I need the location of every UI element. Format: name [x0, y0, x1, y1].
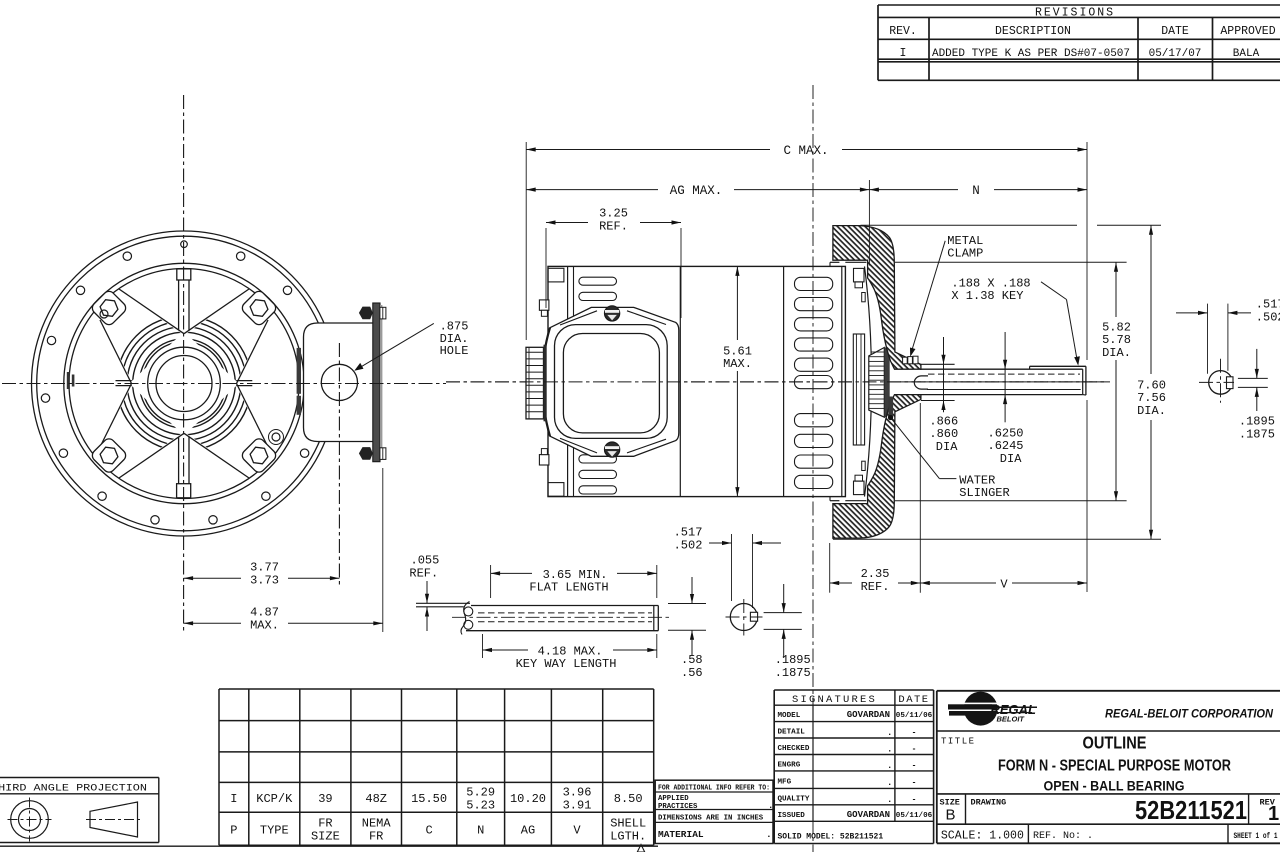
- shaft detail flat lines: [416, 603, 470, 607]
- title texts: [941, 733, 1231, 794]
- dimension 7.60/7.56 DIA: [833, 225, 1166, 539]
- dimension 4.87 MAX: [184, 468, 383, 633]
- end cap curve: [865, 266, 872, 496]
- svg-text:REVISIONS: REVISIONS: [1035, 6, 1115, 19]
- rear stub shaft with ribs: [526, 345, 547, 422]
- svg-text:MAX.: MAX.: [723, 357, 752, 371]
- front view center bore circles: [148, 347, 221, 420]
- cover left edge emphasis: [542, 328, 550, 437]
- svg-text:BALA: BALA: [1233, 48, 1260, 60]
- svg-text:OUTLINE: OUTLINE: [1083, 733, 1147, 753]
- parameter table: [219, 689, 654, 845]
- svg-text:SHEET 1 of 1: SHEET 1 of 1: [1234, 832, 1278, 841]
- svg-text:PRACTICES: PRACTICES: [658, 803, 698, 811]
- dimension 3.25 REF: [546, 207, 681, 319]
- revision flag triangle: [637, 845, 644, 852]
- svg-text:.: .: [768, 801, 773, 811]
- dimension N: [869, 184, 1087, 198]
- dimension C MAX: [526, 142, 1087, 592]
- bell housing vertical centerline: [812, 85, 814, 852]
- svg-text:3.96: 3.96: [563, 786, 592, 800]
- regal beloit logo: [948, 692, 1037, 726]
- additional info block: [655, 780, 773, 843]
- front view bottom strut: [177, 437, 191, 498]
- front view vertical centerline overlay: [183, 95, 185, 633]
- front view right strut stub: [236, 381, 252, 386]
- dimension 3.77/3.73: [184, 561, 340, 588]
- water slinger disc: [888, 397, 893, 418]
- svg-text:B: B: [946, 807, 956, 824]
- bearing hub plate: [853, 334, 864, 445]
- svg-text:FOR ADDITIONAL INFO REFER TO:: FOR ADDITIONAL INFO REFER TO:: [658, 784, 770, 792]
- cover slant inner lines: [560, 311, 666, 453]
- svg-text:C: C: [425, 823, 432, 837]
- junction box cover plate (front view): [373, 303, 383, 462]
- svg-text:-: -: [912, 796, 917, 805]
- svg-text:N: N: [477, 823, 484, 837]
- dimension 5.82/5.78 DIA: [895, 262, 1131, 501]
- cover plate bottom bolt: [359, 447, 386, 460]
- main horizontal centerline: [2, 382, 1105, 384]
- .875 dia hole: [321, 364, 357, 400]
- svg-text:DIA: DIA: [1000, 452, 1022, 466]
- size drawing rev row: [940, 795, 1280, 825]
- svg-text:REF.: REF.: [599, 219, 628, 233]
- svg-text:SOLID MODEL: 52B211521: SOLID MODEL: 52B211521: [778, 833, 884, 842]
- svg-text:5.23: 5.23: [466, 799, 495, 813]
- svg-text:SIGNATURES: SIGNATURES: [792, 694, 877, 706]
- svg-text:3.91: 3.91: [563, 799, 592, 813]
- front view left edge tick marks: [67, 372, 75, 389]
- svg-text:CLAMP: CLAMP: [947, 247, 983, 261]
- svg-text:MFG: MFG: [778, 779, 792, 787]
- ventilation slots right column: [795, 277, 833, 488]
- front view X-brace web edges: [100, 289, 268, 478]
- svg-text:ISSUED: ISSUED: [778, 812, 806, 820]
- svg-text:48Z: 48Z: [365, 792, 387, 806]
- svg-text:.: .: [887, 795, 892, 805]
- svg-text:DATE: DATE: [898, 694, 929, 706]
- bearing bracket top: [854, 268, 866, 301]
- svg-text:AG MAX.: AG MAX.: [670, 184, 723, 198]
- leader WATER SLINGER: [888, 415, 1010, 500]
- dimension .517/.502 (lower view): [674, 526, 781, 609]
- svg-text:REF.: REF.: [861, 580, 890, 594]
- sheet bottom border: [0, 845, 658, 847]
- dimension 3.65 MIN FLAT LENGTH: [491, 565, 657, 598]
- svg-text:-: -: [912, 729, 917, 738]
- svg-text:TYPE: TYPE: [260, 823, 289, 837]
- svg-text:FR: FR: [318, 817, 332, 831]
- svg-text:KEY WAY LENGTH: KEY WAY LENGTH: [516, 657, 617, 671]
- shaft end view circle (lower): [726, 599, 763, 636]
- svg-text:39: 39: [318, 792, 332, 806]
- scale row: [941, 830, 1278, 843]
- svg-text:SHELL: SHELL: [610, 817, 646, 831]
- svg-text:REGAL-BELOIT CORPORATION: REGAL-BELOIT CORPORATION: [1105, 708, 1274, 720]
- svg-text:DETAIL: DETAIL: [778, 729, 806, 737]
- svg-text:8.50: 8.50: [614, 792, 643, 806]
- svg-text:3.73: 3.73: [250, 574, 279, 588]
- svg-text:TITLE: TITLE: [941, 736, 976, 746]
- projection symbol circles: [8, 798, 52, 842]
- third angle projection box: [0, 778, 159, 843]
- bell housing upper section (hatched): [833, 226, 921, 370]
- svg-text:V: V: [573, 823, 581, 837]
- svg-text:SCALE: 1.000: SCALE: 1.000: [941, 830, 1024, 843]
- svg-text:.: .: [887, 778, 892, 788]
- svg-text:REV.: REV.: [889, 25, 917, 38]
- leader METAL CLAMP: [910, 234, 983, 357]
- junction box hole centerline: [338, 343, 340, 588]
- shaft end cap: [1083, 366, 1086, 395]
- svg-text:AG: AG: [521, 823, 535, 837]
- svg-text:P: P: [230, 823, 237, 837]
- knurled clamp hub: [869, 348, 890, 418]
- svg-text:N: N: [972, 184, 980, 198]
- svg-text:.502: .502: [674, 538, 703, 552]
- svg-text:MAX.: MAX.: [250, 619, 279, 633]
- dimension .1895/.1875 (far right): [1238, 349, 1275, 441]
- svg-text:APPROVED: APPROVED: [1220, 25, 1275, 38]
- svg-text:GOVARDAN: GOVARDAN: [847, 710, 890, 720]
- svg-text:FORM N - SPECIAL PURPOSE MOTOR: FORM N - SPECIAL PURPOSE MOTOR: [998, 758, 1231, 775]
- shaft detail body: [466, 606, 658, 631]
- svg-text:FLAT LENGTH: FLAT LENGTH: [529, 581, 608, 595]
- svg-text:MODEL: MODEL: [778, 712, 801, 720]
- svg-text:.: .: [887, 745, 892, 755]
- shaft key .188: [1030, 366, 1086, 369]
- svg-text:X 1.38 KEY: X 1.38 KEY: [951, 289, 1023, 303]
- svg-text:REF. No: .: REF. No: .: [1033, 831, 1093, 842]
- shaft detail centerline: [452, 616, 670, 618]
- svg-text:.502: .502: [1256, 310, 1280, 324]
- junction box (front view): [304, 323, 376, 442]
- front view bolt holes on bolt circle: [41, 241, 309, 524]
- cover rounded plates: [555, 325, 668, 439]
- dimension AG MAX: [526, 180, 869, 266]
- svg-text:3.77: 3.77: [250, 561, 279, 575]
- metal clamp pieces: [903, 356, 918, 364]
- svg-text:15.50: 15.50: [411, 792, 447, 806]
- svg-text:2.35: 2.35: [861, 567, 890, 581]
- dimension 5.61 MAX: [723, 266, 752, 496]
- svg-text:.56: .56: [681, 666, 703, 680]
- leader .875 dia hole: [354, 320, 468, 371]
- front view vertical centerline: [183, 95, 185, 633]
- front view top strut: [177, 269, 191, 330]
- dimension .866/.860 DIA: [929, 337, 958, 454]
- svg-text:SLINGER: SLINGER: [959, 486, 1009, 500]
- dimension .58/.56: [668, 577, 706, 680]
- bore lines .866: [921, 364, 955, 400]
- cover screw top: [605, 306, 620, 321]
- svg-text:52B211521: 52B211521: [1135, 795, 1247, 825]
- svg-text:05/17/07: 05/17/07: [1149, 48, 1202, 60]
- svg-text:APPLIED: APPLIED: [658, 795, 689, 803]
- svg-text:DIA.: DIA.: [1102, 346, 1131, 360]
- svg-text:SIZE: SIZE: [311, 830, 340, 844]
- front view motor flange outer circle: [32, 231, 337, 536]
- svg-text:.: .: [887, 728, 892, 738]
- svg-text:THIRD ANGLE PROJECTION: THIRD ANGLE PROJECTION: [0, 784, 147, 795]
- junction box hole centerline overlay: [338, 343, 340, 588]
- front view stator lamination arcs in windows: [117, 316, 252, 451]
- svg-text:10.20: 10.20: [510, 792, 546, 806]
- svg-text:.1875: .1875: [775, 666, 811, 680]
- dimension V: [920, 577, 1087, 591]
- svg-text:.: .: [887, 761, 892, 771]
- end shield step lines: [830, 262, 866, 500]
- svg-text:DRAWING: DRAWING: [971, 797, 1007, 807]
- junction box cover octagon (side view): [542, 307, 679, 456]
- svg-text:DATE: DATE: [1161, 25, 1189, 38]
- svg-text:NEMA: NEMA: [362, 817, 392, 831]
- svg-text:I: I: [900, 47, 907, 60]
- shaft relief groove: [914, 376, 928, 389]
- svg-text:.1875: .1875: [1239, 427, 1275, 441]
- front view left strut stub: [116, 381, 132, 386]
- svg-text:4.87: 4.87: [250, 605, 279, 619]
- projection symbol cone: [86, 802, 142, 837]
- svg-text:05/11/06: 05/11/06: [896, 712, 933, 720]
- ventilation slots left column: [579, 277, 617, 494]
- signatures table: [774, 690, 933, 844]
- shaft detail hidden keyway lines: [478, 613, 652, 622]
- through-bolt heads left: [539, 300, 549, 465]
- svg-text:LGTH.: LGTH.: [610, 830, 646, 844]
- svg-text:GOVARDAN: GOVARDAN: [847, 810, 890, 820]
- dimension 4.18 MAX KEY WAY LENGTH: [483, 634, 657, 671]
- dimension .517/.502 (far right): [1176, 298, 1280, 374]
- front view small plate holes: [100, 310, 284, 445]
- revisions table: [878, 5, 1280, 80]
- leader .188 X .188 X 1.38 KEY: [951, 277, 1080, 366]
- svg-text:5.29: 5.29: [466, 786, 495, 800]
- shaft end view circle (far right): [1199, 359, 1234, 403]
- bell housing lower section (hatched): [833, 395, 921, 539]
- svg-text:V: V: [1000, 577, 1008, 591]
- dimension .055 REF: [409, 554, 439, 632]
- svg-text:OPEN - BALL BEARING: OPEN - BALL BEARING: [1044, 778, 1185, 794]
- shaft detail break symbol: [461, 602, 473, 635]
- svg-text:CHECKED: CHECKED: [778, 745, 810, 753]
- svg-text:.: .: [766, 829, 772, 840]
- main horizontal centerline overlay: [2, 382, 1105, 384]
- shaft centerline: [900, 381, 1110, 383]
- svg-text:BELOIT: BELOIT: [997, 714, 1026, 723]
- svg-text:-: -: [912, 745, 917, 754]
- svg-text:REF.: REF.: [409, 566, 438, 580]
- motor body outline (side view): [548, 266, 845, 496]
- svg-text:DIMENSIONS ARE IN INCHES: DIMENSIONS ARE IN INCHES: [658, 814, 764, 822]
- svg-text:DIA.: DIA.: [1137, 404, 1166, 418]
- svg-text:I: I: [230, 792, 237, 806]
- svg-text:FR: FR: [369, 830, 383, 844]
- dimension .6250/.6245 DIA: [988, 332, 1024, 466]
- cover plate top bolt: [359, 307, 386, 320]
- dimension 2.35 REF: [830, 403, 921, 594]
- shaft: [920, 369, 1083, 394]
- dimension .1895/.1875 (lower view): [764, 584, 811, 680]
- svg-text:DESCRIPTION: DESCRIPTION: [995, 25, 1071, 38]
- svg-text:MATERIAL: MATERIAL: [658, 829, 704, 840]
- bearing bracket bottom: [854, 461, 866, 494]
- title block: [937, 691, 1280, 844]
- front view inner ring (end shield rim): [64, 263, 304, 503]
- svg-text:KCP/K: KCP/K: [256, 792, 293, 806]
- svg-text:QUALITY: QUALITY: [778, 796, 810, 804]
- svg-text:DIA: DIA: [936, 440, 958, 454]
- svg-text:HOLE: HOLE: [440, 344, 469, 358]
- junction box side wall marks: [297, 348, 301, 415]
- svg-text:C MAX.: C MAX.: [783, 144, 828, 158]
- svg-text:ENGRG: ENGRG: [778, 762, 801, 770]
- body corner step blocks: [548, 268, 564, 496]
- svg-text:ADDED TYPE K AS PER DS#07-0507: ADDED TYPE K AS PER DS#07-0507: [932, 48, 1130, 60]
- front view bolt bosses and hex bolts: [90, 289, 278, 475]
- svg-text:1: 1: [1268, 803, 1279, 825]
- cover screw bottom: [605, 442, 620, 457]
- svg-text:-: -: [912, 779, 917, 788]
- svg-text:-: -: [912, 762, 917, 771]
- svg-text:05/11/06: 05/11/06: [896, 812, 933, 820]
